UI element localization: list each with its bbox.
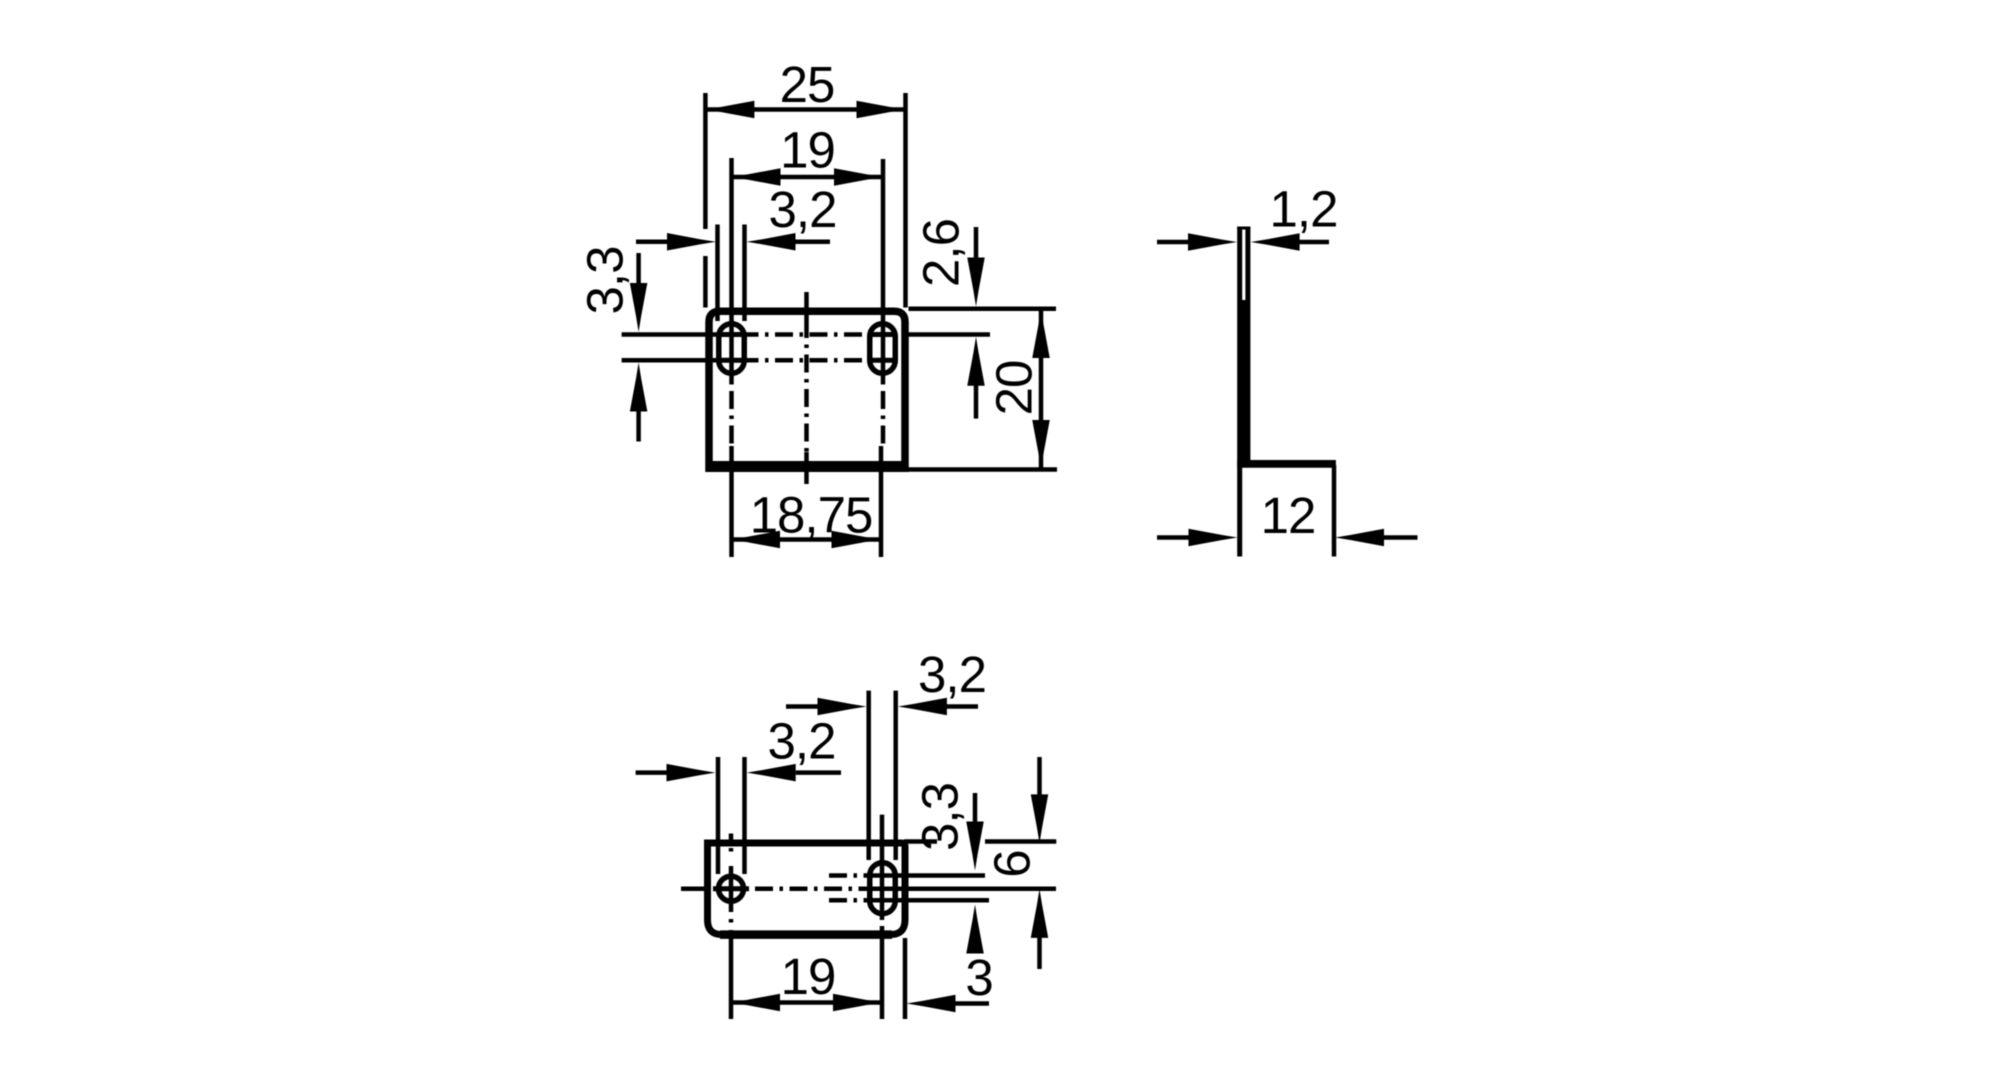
plate top cap [1237,227,1250,230]
dim 3,2 front: extension lines (slot edges) [715,225,720,322]
svg-text:6: 6 [984,850,1041,877]
svg-text:19: 19 [780,122,835,179]
dim 1,2: arrows [1157,240,1190,245]
center line C (horizontal through holes) [681,886,707,891]
right edge extension below [903,938,908,1019]
svg-text:3: 3 [965,949,992,1006]
svg-text:25: 25 [780,56,835,113]
svg-text:19: 19 [781,948,836,1005]
svg-text:3,3: 3,3 [577,247,634,315]
dim 25: dimension line and arrowheads [705,107,905,112]
svg-text:2,6: 2,6 [913,219,970,287]
plate left face line [1237,227,1242,557]
dim 12: arrows [1157,535,1190,540]
dim 3,2 left (hole dia): extension lines [716,757,721,874]
vertical center line right slot [880,815,885,920]
flange right end extension line [1332,465,1337,557]
dim 3,2 top: arrows [786,704,818,709]
flange (bottom leg) [1237,460,1336,468]
dim 2,6: arrows [974,227,979,258]
svg-text:12: 12 [1261,487,1316,544]
svg-text:18,75: 18,75 [750,487,873,544]
dim 3,3 front: dimension line with arrows [636,253,641,284]
center line B (right slot upper arc center) [829,873,866,878]
right slot (bottom view) [870,863,896,914]
svg-text:3,2: 3,2 [769,181,837,238]
bottom view outline [704,843,905,935]
dim 3,3 bottom view: arrows [973,793,978,822]
svg-text:20: 20 [986,361,1043,416]
vertical center line left slot [729,158,734,381]
dim 20: extension lines [909,307,1057,312]
left slot cross ticks [720,332,744,337]
dim 3,2 front: arrows with tails [636,240,668,245]
left hole (circle) [719,876,744,901]
svg-text:3,3: 3,3 [912,783,969,851]
dim 18,75: dimension line and arrowheads [731,537,881,542]
dim 3,3 bottom view: top edge ext stub [904,839,937,844]
dim 3,2 top (right slot width): extension lines [866,691,871,860]
bracket bottom edge (front view, thick) [706,461,909,472]
dim 19 bottom: dimension line and arrowheads [731,1000,882,1005]
plate right face line [1245,227,1250,460]
center line D (right slot lower arc center) [829,898,866,903]
svg-text:3,2: 3,2 [768,713,836,770]
dim 19: dimension line and arrowheads [732,175,884,180]
right slot cross ticks [871,332,895,337]
left slot (front view) [719,324,745,374]
svg-text:3,2: 3,2 [918,646,986,703]
dim 20: dimension line and arrowheads [1039,309,1044,469]
dim 3 bottom: arrow [907,995,956,1013]
vertical center line middle [804,292,809,320]
horizontal center line lower (through slot lower arc centers) [622,358,706,363]
bracket outline (front view) [709,311,905,472]
dim 25: extension lines [703,93,708,229]
svg-text:1,2: 1,2 [1270,181,1338,238]
vertical center line left hole [729,834,734,842]
vertical center line right slot [881,159,886,381]
horizontal center line upper (through slot upper arc centers) [622,332,706,337]
bottom view bottom edge (thick) [720,930,892,939]
plate body fill (lines merge below) [1242,300,1247,461]
dim 3,2 left: arrows [636,770,667,775]
right slot (front view) [870,324,896,374]
dim 6: arrows [1037,757,1042,795]
